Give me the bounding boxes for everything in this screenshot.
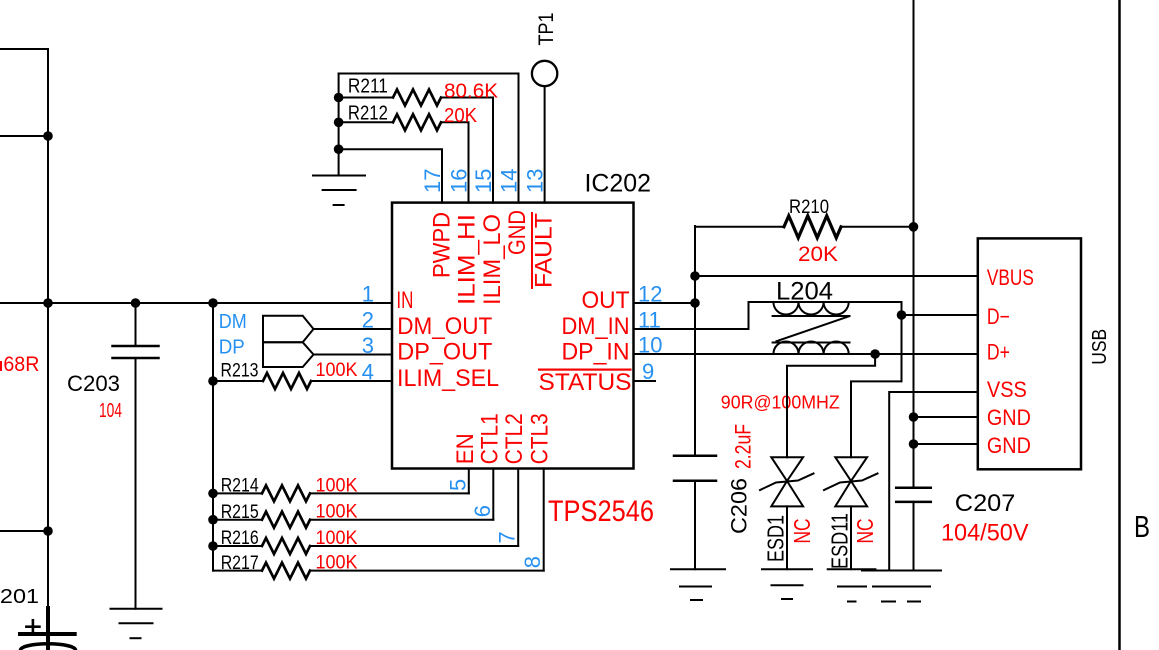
pin 16 number	[447, 169, 472, 193]
label R211	[348, 76, 388, 98]
pin 7 number	[495, 531, 520, 543]
label USB	[1089, 329, 1111, 365]
pin 9 number	[642, 359, 654, 384]
test point TP1	[532, 61, 557, 203]
connector USB box	[978, 238, 1081, 469]
ground top bus	[313, 176, 365, 206]
pin D+	[987, 340, 1010, 365]
border frame right	[1118, 0, 1121, 650]
label ESD11	[827, 513, 853, 569]
wire DM to pin2	[314, 328, 393, 330]
value 68R	[0, 353, 39, 376]
label L204	[776, 278, 833, 306]
wire main IN rail	[0, 302, 392, 304]
svg-text:CTL2: CTL2	[501, 413, 528, 464]
pin GND b	[987, 433, 1031, 458]
node junction x913.5 y226	[909, 222, 919, 232]
svg-text:DP: DP	[219, 337, 245, 359]
label R214	[221, 476, 259, 497]
pin 3 number	[362, 333, 374, 358]
svg-text:17: 17	[420, 169, 445, 193]
wire top ground bus	[338, 74, 340, 176]
node junction x213 y381	[208, 376, 218, 386]
label C203	[67, 371, 120, 396]
svg-text:R217: R217	[221, 553, 259, 574]
node junction x48 y136	[43, 131, 53, 141]
value 90R@100MHZ	[721, 393, 840, 413]
wire pin17 to bus	[339, 149, 442, 202]
resistor R210	[695, 216, 914, 238]
node junction x338.6 y149.2	[334, 144, 344, 154]
pin 11 number	[638, 308, 661, 333]
svg-text:100K: 100K	[316, 360, 358, 381]
pin name ILIM_LO	[479, 214, 506, 305]
op-amp U1 IC202 body	[392, 203, 634, 469]
svg-text:PWPD: PWPD	[429, 212, 456, 278]
svg-text:R213: R213	[221, 361, 259, 382]
pin 4 number	[362, 360, 374, 385]
label DM	[219, 311, 247, 333]
svg-text:15: 15	[471, 169, 496, 193]
svg-text:2.2uF: 2.2uF	[731, 424, 756, 469]
svg-text:DP_IN: DP_IN	[562, 339, 630, 366]
svg-text:GND: GND	[504, 210, 531, 255]
node junction x695 y303	[690, 298, 700, 308]
inductor L204	[773, 302, 902, 354]
pin name DM_IN	[562, 313, 630, 340]
svg-text:DM_OUT: DM_OUT	[397, 313, 492, 340]
svg-text:CTL1: CTL1	[476, 413, 503, 464]
wire ESD1 feed	[787, 354, 875, 457]
svg-text:DP_OUT: DP_OUT	[397, 339, 492, 366]
svg-text:STATUS: STATUS	[539, 369, 632, 396]
wire DM DP bus vertical	[212, 303, 214, 571]
resistor R217	[213, 469, 544, 579]
node junction x695 y276	[690, 271, 700, 281]
svg-text:GND: GND	[987, 433, 1031, 458]
pin 5 number	[445, 479, 470, 491]
svg-text:CTL3: CTL3	[527, 413, 554, 464]
transistor ESD1 TVS	[760, 457, 814, 569]
label TPS2546	[548, 495, 654, 528]
value 100K R217	[316, 553, 358, 574]
svg-text:ILIM_HI: ILIM_HI	[454, 214, 481, 305]
ground ESD1	[762, 569, 812, 599]
pin 8 number	[520, 556, 545, 568]
svg-text:NC: NC	[852, 519, 878, 544]
value 80.6K	[444, 81, 499, 103]
pin name DP_OUT	[397, 339, 492, 366]
wire STATUS stub	[634, 380, 656, 382]
pin name ILIM_SEL	[397, 365, 499, 392]
label ESD1	[763, 515, 789, 562]
node junction x913.5 y417	[909, 412, 919, 422]
svg-text:ILIM_LO: ILIM_LO	[479, 214, 506, 305]
svg-text:68R: 68R	[3, 353, 39, 376]
svg-text:C206: C206	[727, 478, 752, 534]
pin name EN	[452, 433, 479, 464]
svg-text:20K: 20K	[444, 105, 478, 127]
svg-text:3: 3	[362, 333, 374, 358]
svg-text:IN: IN	[396, 287, 413, 314]
svg-text:6: 6	[470, 505, 495, 517]
wire top-left horizontal	[0, 49, 48, 303]
label R213	[221, 361, 259, 382]
capacitor C207	[896, 488, 931, 502]
resistor R214	[213, 469, 469, 502]
resistor R216	[213, 469, 518, 555]
svg-text:EN: EN	[452, 433, 479, 464]
wire vertical x695	[694, 226, 696, 456]
label TP1	[535, 13, 558, 46]
svg-text:80.6K: 80.6K	[444, 81, 499, 103]
svg-text:100K: 100K	[316, 528, 358, 549]
pin 14 number	[497, 169, 522, 193]
pin 17 number	[420, 169, 445, 193]
node junction x901.5 y315	[897, 310, 907, 320]
svg-text:NC: NC	[789, 519, 815, 544]
label DP	[219, 337, 245, 359]
wire top rail to pin14	[339, 74, 519, 203]
svg-text:R215: R215	[221, 502, 259, 523]
svg-text:B: B	[1134, 509, 1150, 544]
value NC ESD11	[852, 519, 878, 544]
svg-text:100K: 100K	[316, 553, 358, 574]
pin name DP_IN	[562, 339, 630, 366]
svg-text:4: 4	[362, 360, 374, 385]
node junction x135.5 y303	[131, 298, 141, 308]
pin name CTL1	[476, 413, 503, 464]
transistor ESD11 TVS	[824, 457, 878, 569]
ground C206	[671, 569, 725, 600]
label R217	[221, 553, 259, 574]
svg-text:C207: C207	[955, 490, 1016, 517]
ground ESD11	[828, 569, 876, 601]
svg-text:OUT: OUT	[582, 287, 630, 314]
svg-text:C203: C203	[67, 371, 120, 396]
node junction x338.6 y97.5	[334, 93, 344, 103]
svg-text:R210: R210	[789, 197, 829, 218]
svg-text:C201: C201	[0, 586, 39, 608]
svg-text:TP1: TP1	[535, 13, 558, 46]
wire D- to USB	[902, 302, 978, 315]
svg-text:2: 2	[362, 308, 374, 333]
svg-text:GND: GND	[987, 405, 1031, 430]
resistor R215	[213, 469, 493, 528]
pin 6 number	[470, 505, 495, 517]
svg-text:100K: 100K	[316, 502, 358, 523]
label C206	[727, 478, 752, 534]
svg-text:L204: L204	[776, 278, 833, 306]
wire left y136	[0, 135, 48, 137]
wire left vertical to C201	[47, 303, 49, 612]
node junction x875.1 y354	[870, 349, 880, 359]
wire DP to pin3	[314, 354, 393, 356]
pin 12 number	[638, 282, 662, 307]
svg-text:DM_IN: DM_IN	[562, 313, 630, 340]
svg-text:13: 13	[523, 169, 548, 193]
pin 2 number	[362, 308, 374, 333]
wire VSS to ground	[889, 392, 978, 571]
value 100K R213	[316, 360, 358, 381]
svg-text:ESD1: ESD1	[763, 515, 789, 562]
node junction x213 y519.7	[208, 515, 218, 525]
svg-text:7: 7	[495, 531, 520, 543]
svg-text:ILIM_SEL: ILIM_SEL	[397, 365, 499, 392]
svg-text:R214: R214	[221, 476, 259, 497]
pin name PWPD	[429, 212, 456, 278]
value 100K R216	[316, 528, 358, 549]
pin 1 number	[362, 282, 374, 307]
svg-text:104: 104	[99, 400, 122, 422]
pin VBUS	[987, 265, 1034, 290]
label R215	[221, 502, 259, 523]
svg-text:100K: 100K	[316, 475, 358, 496]
svg-text:14: 14	[497, 169, 522, 193]
wire DM_IN pin11 to choke	[634, 302, 774, 329]
pin GND a	[987, 405, 1031, 430]
node junction x338.6 y122.3	[334, 118, 344, 128]
zone label B	[1134, 509, 1150, 544]
pin name DM_OUT	[397, 313, 492, 340]
svg-text:104/50V: 104/50V	[941, 520, 1029, 547]
wire VBUS rail	[695, 275, 978, 277]
label R212	[348, 103, 388, 125]
value 20K R210	[798, 243, 838, 266]
capacitor C201	[20, 608, 76, 650]
svg-text:20K: 20K	[798, 243, 838, 266]
capacitor C203	[113, 303, 159, 609]
svg-text:R216: R216	[221, 528, 259, 549]
ground C203	[111, 609, 162, 639]
node junction x213 y303	[208, 298, 218, 308]
pin name CTL3	[527, 413, 554, 464]
resistor R213	[213, 373, 392, 389]
node DP flag	[263, 342, 314, 367]
node junction x48 y531	[43, 526, 53, 536]
pin D-	[987, 304, 1010, 329]
wire OUT pin12	[634, 302, 696, 304]
svg-text:1: 1	[362, 282, 374, 307]
svg-text:5: 5	[445, 479, 470, 491]
svg-text:90R@100MHZ: 90R@100MHZ	[721, 393, 840, 413]
pin name ILIM_HI	[454, 214, 481, 305]
svg-text:8: 8	[520, 556, 545, 568]
svg-text:TPS2546: TPS2546	[548, 495, 654, 528]
pin 10 number	[638, 333, 662, 358]
svg-text:R211: R211	[348, 76, 388, 98]
wire GND2 to USB	[914, 443, 978, 445]
wire DP_IN pin10 to USB D+	[634, 353, 978, 355]
value 100K R215	[316, 502, 358, 523]
value 104	[99, 400, 122, 422]
label R216	[221, 528, 259, 549]
svg-text:16: 16	[447, 169, 472, 193]
wire GND1 to USB	[914, 416, 978, 418]
label C207	[955, 490, 1016, 517]
value 104/50V	[941, 520, 1029, 547]
wire GND long vertical	[913, 0, 915, 571]
node junction x48 y303	[43, 298, 53, 308]
node junction x213 y493.4	[208, 489, 218, 499]
pin 15 number	[471, 169, 496, 193]
value 20K R212	[444, 105, 478, 127]
node junction x913.5 y444	[909, 439, 919, 449]
ground VSS GND rails	[862, 571, 941, 602]
svg-text:ESD11: ESD11	[827, 513, 853, 569]
svg-text:USB: USB	[1089, 329, 1111, 365]
value NC ESD1	[789, 519, 815, 544]
pin name STATUS	[538, 369, 632, 397]
svg-text:DM: DM	[219, 311, 247, 333]
svg-text:D−: D−	[987, 304, 1010, 329]
capacitor C206	[674, 456, 716, 569]
svg-text:R212: R212	[348, 103, 388, 125]
value 2.2uF	[731, 424, 756, 469]
svg-text:VSS: VSS	[987, 377, 1027, 402]
svg-text:FAULT: FAULT	[531, 213, 558, 288]
node DM flag	[263, 316, 314, 343]
value 100K R214	[316, 475, 358, 496]
resistor R212	[339, 114, 469, 202]
svg-text:IC202: IC202	[585, 170, 652, 198]
node junction x213 y546	[208, 541, 218, 551]
pin VSS	[987, 377, 1027, 402]
pin name CTL2	[501, 413, 528, 464]
pin name IN	[396, 287, 413, 314]
wire ESD11 feed	[851, 315, 902, 457]
svg-text:D+: D+	[987, 340, 1010, 365]
label IC202	[585, 170, 652, 198]
pin 13 number	[523, 169, 548, 193]
pin name FAULT	[531, 212, 558, 289]
svg-text:VBUS: VBUS	[987, 265, 1034, 290]
label R210	[789, 197, 829, 218]
pin name GND	[504, 210, 531, 255]
label C201	[0, 586, 39, 608]
wire left y531	[0, 530, 48, 532]
pin name OUT	[582, 287, 630, 314]
resistor R211	[339, 90, 493, 203]
